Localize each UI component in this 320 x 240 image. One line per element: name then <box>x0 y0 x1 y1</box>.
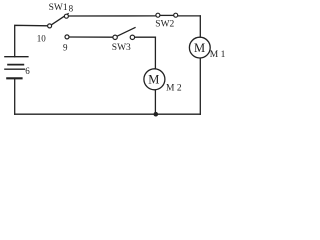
SW1 contact 9 circle <box>65 35 69 39</box>
motor M2 <box>144 69 165 90</box>
motor M1 <box>189 37 210 58</box>
SW3 right contact circle <box>130 35 134 39</box>
wire SW3 to corner above M2 <box>135 36 156 38</box>
junction node dot <box>154 112 159 117</box>
SW2 link bar <box>160 14 174 16</box>
svg-text:SW2: SW2 <box>155 20 174 30</box>
svg-text:10: 10 <box>37 34 47 44</box>
wire left vertical top <box>15 25 48 56</box>
SW2 left contact circle <box>156 13 160 17</box>
wire right vertical into M1 <box>199 16 201 38</box>
wire row2 from contact 9 to SW3 <box>69 36 113 38</box>
svg-text:SW3: SW3 <box>112 43 131 53</box>
SW3 blade open <box>117 27 136 36</box>
wire M1 bottom to bottom rail <box>199 58 201 114</box>
svg-text:6: 6 <box>25 66 30 76</box>
SW1 contact 8 circle <box>64 14 68 18</box>
svg-text:8: 8 <box>69 4 74 14</box>
wire top row from SW1 contact 8 to SW2 <box>68 15 156 17</box>
SW1 blade from 10 to 8 <box>51 13 68 24</box>
SW3 left contact circle <box>113 35 117 39</box>
wire vertical into M2 <box>154 37 156 69</box>
wire M2 bottom to junction <box>154 90 156 114</box>
switch SW1 (SPDT): common contact 10, throws 8 and 9 <box>48 13 69 39</box>
switch SW2 (closed) <box>156 13 178 17</box>
svg-text:M: M <box>148 73 159 87</box>
wire bottom horizontal <box>15 113 201 115</box>
SW2 right contact circle <box>174 13 178 17</box>
wire left vertical bottom <box>14 78 16 114</box>
svg-text:M: M <box>194 41 205 55</box>
svg-text:9: 9 <box>63 43 68 53</box>
battery 6 <box>4 57 28 79</box>
svg-text:SW1: SW1 <box>49 3 68 13</box>
SW1 contact 10 circle <box>48 24 52 28</box>
switch SW3 (open) <box>113 27 136 39</box>
wire SW2 to right corner <box>178 15 201 17</box>
svg-text:M 1: M 1 <box>210 50 226 60</box>
svg-text:M 2: M 2 <box>166 83 182 93</box>
